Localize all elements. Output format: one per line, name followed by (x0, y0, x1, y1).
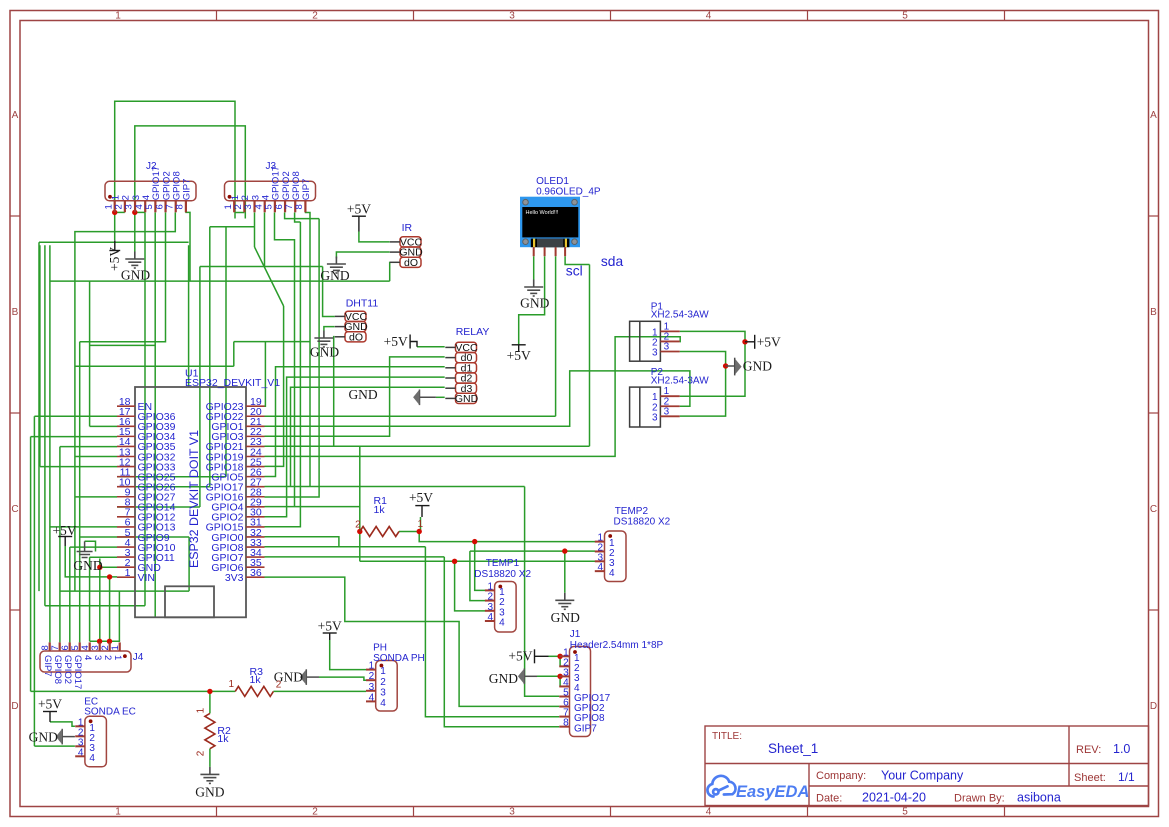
connector J4 8-pin header (40, 651, 131, 672)
svg-text:DHT11: DHT11 (346, 298, 379, 310)
wire R2 top lead (209, 691, 211, 713)
wire J4 pin7 riser (59, 447, 61, 643)
wire J4 pin8 riser (49, 245, 51, 642)
svg-text:VIN: VIN (138, 572, 156, 584)
svg-text:GND: GND (73, 558, 102, 573)
junction dot (132, 210, 137, 215)
svg-text:A: A (12, 110, 19, 121)
ground at J1 pin3 (rotated) (524, 669, 537, 685)
U1 right pin 34 GPIO7 (246, 556, 265, 558)
junction dot (557, 674, 562, 679)
svg-text:2: 2 (312, 807, 318, 818)
U1 left pin 11 GPIO25 (117, 476, 135, 478)
OLED pin 2 (544, 247, 546, 256)
wire EC pin1 +5V (50, 722, 75, 726)
wire R1 +5V stub (419, 517, 420, 532)
wire P1 pin1 to P2 pin1 (680, 331, 745, 396)
svg-text:J4: J4 (133, 652, 144, 663)
svg-text:C: C (11, 504, 18, 515)
U1 left pin 1 VIN (117, 576, 135, 578)
wire GPIO19 to P1 pin2 (265, 337, 681, 457)
U1 left pin 16 GPIO39 (117, 425, 135, 427)
wire TEMP2 pin3 row (360, 560, 595, 562)
U1 right pin 22 GPIO3 (246, 435, 265, 437)
U1 right pin 25 GPIO18 (246, 466, 265, 468)
U1 left pin 5 GPIO9 (117, 536, 135, 538)
wire to U1 GPIO9 (80, 536, 189, 538)
svg-text:GIP7: GIP7 (42, 655, 53, 677)
svg-text:GND: GND (489, 671, 518, 686)
svg-text:1: 1 (418, 519, 424, 530)
svg-text:4: 4 (597, 562, 603, 573)
EasyEDA logo cloud (707, 776, 735, 797)
U1 right pin 30 GPIO2 (246, 516, 265, 518)
U1 left pin 18 EN (117, 405, 135, 407)
wire vertical x226 (225, 227, 227, 477)
svg-text:REV:: REV: (1076, 744, 1101, 756)
ground at PH pin2 (rotated) (306, 669, 319, 685)
wire J3 pin6 jog (285, 213, 320, 219)
connector RELAY 6-pin (456, 342, 477, 352)
wire J3 pin1-pin2 tip link (235, 212, 245, 214)
junction dot (357, 529, 362, 534)
svg-text:asibona: asibona (1017, 791, 1061, 805)
wire J3 pin6 to U1 GPIO16 (265, 219, 320, 497)
ground at OLED pin1 (524, 280, 543, 297)
wire J1 pin1 +5V (549, 655, 561, 657)
+5V symbol at P1 (bar left) (745, 335, 755, 349)
svg-text:+5V: +5V (107, 247, 122, 271)
ground at DHT11 GND (314, 331, 333, 348)
junction dot (742, 339, 747, 344)
svg-text:sda: sda (601, 254, 624, 269)
junction dot (97, 565, 102, 570)
wire U1 GPIO23 riser (264, 342, 267, 407)
frame tick top (413, 11, 415, 21)
U1 left pin 8 GPIO14 (117, 506, 135, 508)
wire DHT GND (324, 327, 335, 331)
wire 3V3 to J1 pin6 (265, 577, 560, 706)
junction dot (107, 639, 112, 644)
frame tick bottom (216, 807, 218, 817)
svg-text:Hello World!!!: Hello World!!! (526, 210, 559, 216)
wire J2 pin8 down (185, 212, 190, 281)
wire scl vertical to OLED pin3 (555, 256, 557, 416)
wire to TEMP1 pin2 (470, 551, 485, 601)
wire GPIO7 row (265, 556, 445, 558)
wire PH pin1 +5V (330, 640, 366, 670)
svg-text:GND: GND (551, 610, 580, 625)
svg-text:SONDA PH: SONDA PH (373, 653, 425, 664)
wire J4 pin6 riser (69, 547, 71, 642)
wire vertical x234 (233, 342, 235, 367)
wire GPIO21 sda row (265, 445, 590, 447)
svg-text:TITLE:: TITLE: (712, 731, 742, 742)
svg-text:D: D (11, 701, 18, 712)
wire IR dO drop (389, 262, 391, 281)
wire TEMP2 pin1 row (419, 532, 595, 542)
svg-text:2021-04-20: 2021-04-20 (862, 791, 926, 805)
svg-text:+5V: +5V (52, 523, 76, 538)
wire J3 pin5 route (275, 213, 295, 507)
wire OLED pin4 jog (565, 256, 589, 264)
U1 right pin 21 GPIO1 (246, 425, 265, 427)
wire U1 GND row (100, 566, 117, 568)
svg-text:XH2.54-3AW: XH2.54-3AW (651, 310, 710, 321)
svg-text:GND: GND (121, 268, 150, 283)
wire J4 pin5 riser (79, 342, 81, 643)
wire GPIO8 row (265, 546, 426, 548)
junction dot (112, 210, 117, 215)
svg-text:1: 1 (115, 807, 121, 818)
wire to TEMP1 pin3 (455, 561, 485, 611)
svg-text:2: 2 (102, 655, 113, 660)
wire J1 pin4 jog (560, 676, 561, 686)
wire to U1 GPIO11 (90, 556, 117, 558)
frame tick top (216, 11, 218, 21)
wire GPIO17 row (265, 486, 525, 488)
wire J3 pin7 to U1 GPIO15 (265, 222, 301, 527)
wire sda vertical (589, 265, 591, 447)
wire J1 pin3 GND (537, 675, 560, 677)
svg-text:+5V: +5V (384, 334, 408, 349)
svg-text:4: 4 (488, 612, 494, 623)
frame tick right (1149, 412, 1159, 414)
junction dot (723, 363, 728, 368)
wire J3 pin3 to U1 GPIO18 (265, 306, 284, 466)
svg-text:1k: 1k (217, 733, 229, 745)
+5V symbol at EC pin1 (43, 712, 57, 722)
wire PH pin2 GND (319, 677, 366, 680)
U1 right pin 33 GPIO8 (246, 546, 265, 548)
svg-text:GPIO8: GPIO8 (52, 655, 63, 684)
connector TEMP1 (495, 582, 516, 633)
svg-text:D: D (1150, 701, 1157, 712)
+5V symbol at U1 VIN (58, 537, 72, 547)
svg-text:Header2.54mm 1*8P: Header2.54mm 1*8P (570, 640, 664, 651)
U1 right pin 19 GPIO23 (246, 405, 265, 407)
connector P2 (630, 387, 661, 427)
U1 right pin 24 GPIO19 (246, 456, 265, 458)
wire vertical x188 (188, 245, 190, 386)
U1 left pin 2 GND (117, 566, 135, 568)
wire GPIO3 to RELAY d0 (265, 357, 445, 436)
junction dot (107, 574, 112, 579)
op-amp U1 ESP32 DEVKIT body (135, 387, 246, 617)
svg-text:GND: GND (455, 393, 479, 405)
wire J4 pin2 riser (109, 577, 111, 641)
wire GPIO4 row (265, 506, 360, 508)
svg-text:3: 3 (369, 682, 375, 693)
wire row y227 (210, 226, 255, 228)
svg-text:XH2.54-3AW: XH2.54-3AW (651, 375, 710, 386)
resistor R1 body (360, 527, 399, 537)
wire R1 pin1 lead (399, 531, 419, 533)
wire GPIO22 scl row (265, 415, 556, 417)
svg-text:TEMP2: TEMP2 (615, 506, 649, 517)
svg-text:dO: dO (349, 331, 363, 343)
ground at RELAY GND (420, 390, 436, 406)
wire to U1 GPIO35 (60, 446, 117, 448)
U1 right pin 20 GPIO22 (246, 415, 265, 417)
frame tick bottom (807, 807, 809, 817)
wire row y591 (60, 590, 189, 592)
wire J2 pin7 down-left (75, 212, 175, 591)
ground below R2 (200, 767, 219, 784)
wire J2 pin3 to J3 pin2 loop (135, 126, 246, 219)
wire IR VCC (359, 232, 390, 242)
wire GND symbol hook (99, 559, 101, 568)
wire to TEMP1 pin1 (475, 542, 485, 591)
junction dot (472, 539, 477, 544)
wire to U1 GPIO13 (50, 526, 117, 528)
frame tick bottom (610, 807, 612, 817)
svg-text:8: 8 (294, 204, 305, 209)
wire row y366 (75, 365, 234, 367)
wire GPIO9 drop (188, 537, 190, 591)
svg-text:+5V: +5V (757, 334, 781, 349)
wire to U1 GPIO36 (34, 415, 117, 417)
ground at EC pin2 (rotated) (62, 729, 75, 745)
frame tick left (10, 609, 20, 611)
U1 right pin 23 GPIO21 (246, 445, 265, 447)
svg-text:4: 4 (499, 618, 505, 629)
svg-text:4: 4 (706, 807, 712, 818)
svg-text:2: 2 (276, 680, 282, 691)
+5V symbol above R1 (415, 506, 429, 517)
U1 left pin 3 GPIO11 (117, 556, 135, 558)
wire row y345 (90, 344, 156, 346)
svg-text:1: 1 (112, 655, 123, 660)
U1 right pin 29 GPIO4 (246, 506, 265, 508)
wire R1 pin2 riser (359, 446, 361, 531)
U1 usb connector outline (165, 586, 214, 617)
svg-text:Company:: Company: (816, 770, 866, 782)
svg-text:GND: GND (29, 730, 58, 745)
svg-text:2: 2 (380, 677, 386, 688)
wire R1 pin2 down (359, 532, 361, 562)
svg-text:GIP7: GIP7 (301, 179, 312, 201)
wire to U1 GPIO33 (40, 466, 117, 468)
wire to U1 GPIO34 (31, 436, 117, 438)
svg-text:3: 3 (652, 412, 658, 423)
svg-text:scl: scl (566, 264, 583, 279)
wire row y242 (39, 241, 189, 243)
frame tick top (807, 11, 809, 21)
svg-text:3V3: 3V3 (225, 572, 244, 584)
wire RELAY d2 to U1 GPIO2 (265, 377, 445, 517)
wire OLED pin2 +5V (519, 256, 545, 345)
ground at J2 pin3 (125, 252, 144, 269)
wire U1 VIN row +5V (65, 546, 117, 577)
svg-text:IR: IR (402, 222, 413, 234)
svg-text:1: 1 (110, 645, 121, 650)
wire TEMP2 GND drop (564, 551, 566, 593)
svg-text:4: 4 (369, 692, 375, 703)
wire J3 pin4 down (264, 213, 266, 267)
connector P1 (630, 321, 661, 361)
wire to U1 GPIO26 (117, 486, 210, 488)
wire to EC pin3 (34, 745, 75, 747)
svg-text:J1: J1 (570, 629, 581, 640)
wire to U1 GPIO32 (75, 456, 117, 458)
frame tick top (610, 11, 612, 21)
U1 left pin 9 GPIO27 (117, 496, 135, 498)
junction dot (207, 689, 212, 694)
wire J3 pin7 jog (295, 213, 301, 223)
svg-text:B: B (1150, 307, 1157, 318)
wire R3 to PH pin3 (273, 690, 366, 692)
svg-text:5: 5 (902, 807, 908, 818)
svg-text:1: 1 (115, 11, 121, 22)
svg-text:4: 4 (609, 568, 615, 579)
svg-text:Sheet_1: Sheet_1 (768, 741, 818, 756)
svg-text:GND: GND (348, 387, 377, 402)
frame tick left (10, 215, 20, 217)
+5V symbol at J2 pin1 (rotated) (109, 240, 120, 250)
svg-text:ESP32 DEVKIT DOIT V1: ESP32 DEVKIT DOIT V1 (187, 430, 201, 568)
U1 left pin 12 GPIO33 (117, 466, 135, 468)
svg-text:4: 4 (89, 753, 95, 764)
frame tick top (1004, 11, 1006, 21)
U1 left pin 15 GPIO34 (117, 435, 135, 437)
+5V symbol at RELAY VCC (bar right) (410, 335, 417, 349)
svg-text:4: 4 (380, 698, 386, 709)
wire P1 pin3 to P2 pin3 (680, 352, 726, 417)
junction dot (562, 548, 567, 553)
svg-text:GPIO17: GPIO17 (72, 655, 83, 689)
wire J4 pin3 riser (99, 567, 101, 641)
svg-text:GIP7: GIP7 (182, 179, 193, 201)
wire GPIO8 to J1 pin7 (425, 547, 559, 717)
svg-text:+5V: +5V (38, 697, 62, 712)
svg-text:Drawn By:: Drawn By: (954, 793, 1005, 805)
frame tick left (10, 412, 20, 414)
svg-text:3: 3 (664, 342, 670, 353)
svg-text:1: 1 (196, 707, 207, 713)
ground at IR GND (327, 257, 346, 274)
wire J2 pin3-pin4 tip link (135, 211, 145, 213)
svg-text:1k: 1k (374, 504, 386, 516)
svg-text:DS18820 X2: DS18820 X2 (474, 569, 531, 580)
wire J3 pin3 diagonal (255, 247, 284, 306)
wire to DHT11 VCC (323, 267, 335, 317)
svg-text:+5V: +5V (508, 649, 532, 664)
wire RELAY d1 to U1 GPIO5 (265, 367, 445, 477)
wire GPIO0 jog (265, 537, 339, 547)
wire to U1 GPIO14 (117, 506, 200, 508)
svg-text:C: C (1150, 504, 1157, 515)
U1 right pin 31 GPIO15 (246, 526, 265, 528)
wire vertical x40 (39, 245, 41, 466)
wire vertical x34 to EC pin3 (33, 416, 35, 746)
svg-text:A: A (1150, 110, 1157, 121)
OLED pin 4 (564, 247, 566, 256)
wire OLED pin1 GND (533, 256, 535, 279)
+5V symbol above PH pin1 (323, 633, 337, 640)
wire R2 bottom lead (209, 749, 211, 767)
svg-text:Date:: Date: (816, 793, 842, 805)
U1 left pin 4 GPIO10 (117, 546, 135, 548)
resistor R3 body (235, 686, 273, 696)
wire J2 pin3 to GND (134, 212, 136, 251)
wire RELAY d3 drop (291, 387, 445, 486)
svg-text:3: 3 (92, 655, 103, 660)
wire to U1 GPIO10 (70, 546, 117, 548)
wire GPIO7 to J1 pin8 (444, 557, 559, 727)
svg-text:GND: GND (520, 296, 549, 311)
wire J2 pin1 to +5V (114, 212, 116, 240)
wire to U1 GPIO39 (90, 425, 117, 427)
wire GPIO17 to J1 pin5 (525, 487, 560, 697)
svg-text:0.96OLED_4P: 0.96OLED_4P (536, 187, 601, 198)
U1 left pin 6 GPIO13 (117, 526, 135, 528)
ground at P1/P2 (rotated right) (726, 358, 735, 376)
svg-text:4: 4 (82, 655, 93, 660)
OLED pin 1 (533, 247, 535, 256)
connector EC (85, 716, 107, 767)
junction dot (557, 654, 562, 659)
svg-text:+5V: +5V (347, 202, 371, 217)
junction dot (97, 639, 102, 644)
wire to U1 GPIO27 (75, 496, 117, 498)
+5V symbol at IR VCC (352, 216, 366, 231)
wire vertical x210 (209, 227, 211, 487)
U1 right pin 28 GPIO16 (246, 496, 265, 498)
wire TEMP2 pin2 row (470, 550, 595, 552)
+5V symbol below OLED pin2 (inverted) (512, 345, 526, 352)
connector J2 8-pin header (105, 181, 196, 201)
svg-text:GND: GND (195, 785, 224, 800)
svg-text:OLED1: OLED1 (536, 176, 569, 187)
connector DHT11 3-pin (345, 311, 366, 321)
wire GPIO1 to P2 pin2 (265, 371, 690, 426)
U1 right pin 36 3V3 (246, 576, 265, 578)
svg-text:+5V: +5V (318, 618, 342, 633)
wire RELAY GND (436, 396, 445, 398)
svg-text:1k: 1k (250, 674, 262, 686)
wire J3 pin3 down (254, 213, 256, 248)
svg-text:ESP32_DEVKIT_V1: ESP32_DEVKIT_V1 (185, 377, 280, 389)
U1 left pin 17 GPIO36 (117, 415, 135, 417)
svg-text:3: 3 (509, 11, 515, 22)
svg-text:3: 3 (509, 807, 515, 818)
wire IR dO row (50, 280, 390, 282)
wire J3 pin8 to GPIO17 net (305, 213, 310, 487)
svg-text:5: 5 (902, 11, 908, 22)
connector J3 8-pin header (225, 181, 316, 201)
wire J1 pin2 jog (560, 656, 561, 666)
junction dot (417, 529, 422, 534)
wire vertical x31 to R3 row (30, 437, 32, 692)
svg-text:1: 1 (228, 679, 234, 690)
junction dot (452, 559, 457, 564)
wire row y342 (234, 341, 310, 343)
wire J2 pin4 long drop (144, 212, 146, 605)
wire J4 pin4 riser (89, 557, 91, 641)
connector J1 Header 1*8P (570, 647, 591, 737)
svg-text:8: 8 (563, 718, 569, 729)
wire J4 pin1 riser (118, 591, 120, 641)
svg-text:36: 36 (250, 567, 262, 579)
wire J2 pin6 down-left (80, 212, 166, 341)
svg-text:J3: J3 (266, 161, 277, 172)
connector IR 3-pin (400, 237, 421, 247)
U1 right pin 26 GPIO5 (246, 476, 265, 478)
svg-text:3: 3 (664, 406, 670, 417)
frame tick right (1149, 609, 1159, 611)
svg-text:DS18820 X2: DS18820 X2 (614, 517, 671, 528)
